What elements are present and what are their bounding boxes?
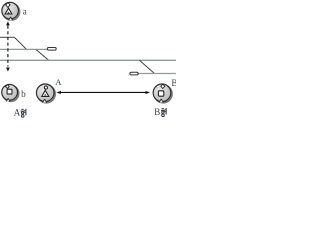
signal a (circle, diamond marker, triangle) (2, 2, 20, 20)
svg-text:b: b (21, 89, 26, 99)
double-headed arrow between A and B (59, 91, 147, 93)
arrowhead down toward signal b (6, 68, 10, 72)
svg-text:B: B (154, 107, 160, 117)
svg-text:A: A (14, 108, 21, 118)
dashed route line (vertical) (7, 26, 9, 67)
wire track 1 (upper grey rail line) (0, 48, 47, 50)
track terminator pill P1 (47, 48, 56, 51)
wire track 3 (lower right grey rail line) (139, 73, 176, 75)
track terminator pill P2 (130, 72, 138, 75)
wire siding track top-left (0, 36, 15, 38)
signal b (circle, diamond marker, square) (2, 84, 19, 101)
signal A (circle, ring marker, triangle) (36, 84, 55, 103)
svg-text:a: a (23, 7, 27, 17)
signal B (circle, diamond marker, square) (153, 84, 172, 103)
svg-text:B: B (171, 78, 176, 88)
wire diagonal turnout from siding to track 1 (15, 37, 27, 49)
svg-text:A: A (55, 77, 62, 87)
arrowhead up toward signal a (6, 21, 10, 25)
wire diagonal crossover track2 to track3 (139, 60, 154, 73)
wire track 2 (main grey rail line, full width) (0, 59, 176, 61)
wire diagonal crossover track1 to track2 (36, 50, 48, 61)
